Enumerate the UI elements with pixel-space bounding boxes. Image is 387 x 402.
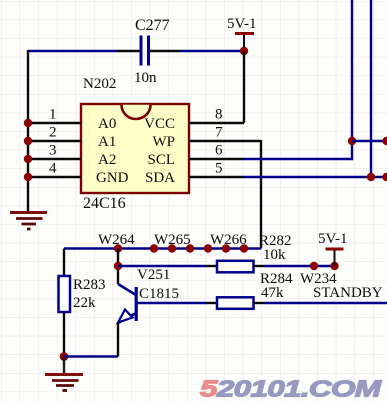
- wire left bus: [27, 50, 29, 212]
- wire cap right to junction: [180, 50, 244, 52]
- node SCL branch: [348, 137, 356, 145]
- power 5V-1 (lower): [326, 248, 344, 267]
- svg-text:STANDBY: STANDBY: [313, 285, 383, 301]
- resistor R282: [217, 261, 254, 273]
- svg-text:24C16: 24C16: [83, 195, 126, 212]
- collector lead: [117, 249, 119, 285]
- svg-text:V251: V251: [137, 267, 170, 283]
- svg-text:5V-1: 5V-1: [227, 16, 256, 32]
- svg-text:VCC: VCC: [144, 116, 175, 132]
- watermark 520101.COM: [200, 376, 382, 402]
- wire vcc vertical: [243, 51, 245, 123]
- svg-text:5: 5: [215, 161, 223, 177]
- svg-text:SCL: SCL: [147, 152, 175, 168]
- wire R283 top: [63, 249, 65, 277]
- wire R283 bottom: [63, 312, 65, 357]
- svg-text:6: 6: [215, 143, 223, 159]
- pin 4 GND: [28, 176, 81, 178]
- svg-text:5V-1: 5V-1: [318, 231, 347, 247]
- pin R284 right lead: [254, 302, 265, 304]
- node pin2: [24, 137, 32, 145]
- svg-text:47k: 47k: [261, 285, 284, 301]
- resistor R284: [217, 297, 254, 309]
- wire SCL right and up: [243, 0, 352, 159]
- svg-text:GND: GND: [96, 170, 129, 186]
- wire SCL branch right: [352, 140, 387, 142]
- emitter diagonal: [119, 313, 136, 323]
- node pin3: [24, 155, 32, 163]
- wire R282 left: [118, 265, 206, 267]
- ground (left, chip pins): [10, 213, 47, 230]
- transistor Q V251 C1815: [118, 249, 138, 357]
- svg-text:A0: A0: [98, 116, 116, 132]
- svg-text:520101.COM: 520101.COM: [200, 376, 382, 402]
- wire emitter net: [64, 355, 118, 357]
- node W234: [310, 262, 318, 270]
- node SDA junction: [367, 173, 375, 181]
- ground (bottom): [45, 357, 83, 391]
- node power attach: [330, 262, 338, 270]
- wire lower net horizontal (W264/5/6): [64, 247, 261, 249]
- svg-text:A2: A2: [98, 152, 116, 168]
- node pin4: [24, 173, 32, 181]
- svg-text:3: 3: [49, 143, 57, 159]
- wire R282 right: [264, 265, 335, 267]
- wire base left: [137, 302, 206, 304]
- node junction at top: [240, 47, 248, 55]
- node R282 branch: [114, 262, 122, 270]
- svg-text:10k: 10k: [263, 247, 286, 263]
- svg-text:8: 8: [215, 107, 223, 123]
- svg-text:10n: 10n: [134, 70, 157, 86]
- svg-text:A1: A1: [98, 134, 116, 150]
- pin 7 WP: [189, 140, 261, 142]
- capacitor C277: [140, 36, 151, 66]
- pin cap right stub: [150, 50, 180, 52]
- svg-text:W264: W264: [98, 232, 135, 248]
- svg-text:1: 1: [49, 107, 57, 123]
- svg-text:SDA: SDA: [145, 170, 175, 186]
- wire SDA right: [243, 176, 387, 178]
- base bar: [135, 287, 138, 321]
- emitter lead: [117, 323, 119, 357]
- pin R284 left lead: [206, 302, 217, 304]
- node W dots: [114, 244, 248, 252]
- wire SDA vertical up: [370, 0, 372, 177]
- svg-text:W266: W266: [210, 232, 247, 248]
- node at right edge SDA: [382, 173, 387, 181]
- pin 1 A0: [28, 122, 81, 124]
- pin 8 VCC: [189, 122, 244, 124]
- svg-text:22k: 22k: [73, 295, 96, 311]
- svg-text:C277: C277: [135, 17, 170, 34]
- svg-text:2: 2: [49, 125, 57, 141]
- pin R282 left lead: [206, 265, 217, 267]
- pin 5 SDA: [189, 176, 243, 178]
- node pin1: [24, 119, 32, 127]
- pin R282 right lead: [254, 265, 265, 267]
- wire base right to edge: [264, 302, 387, 304]
- svg-text:4: 4: [49, 161, 57, 177]
- pin 2 A1: [28, 140, 81, 142]
- power 5V-1 (top): [235, 32, 254, 51]
- pin 3 A2: [28, 158, 81, 160]
- wire WP to down: [260, 140, 262, 249]
- wire top horizontal net: [28, 50, 117, 52]
- svg-text:C1815: C1815: [139, 286, 179, 302]
- svg-text:R283: R283: [73, 277, 106, 293]
- svg-text:7: 7: [215, 125, 223, 141]
- node at right edge top: [382, 137, 387, 145]
- emitter arrow: [118, 310, 133, 323]
- chip U N202 24C16 body: [81, 104, 189, 193]
- svg-text:WP: WP: [153, 134, 176, 150]
- svg-text:W265: W265: [154, 232, 191, 248]
- pin cap left stub: [117, 50, 140, 52]
- svg-text:N202: N202: [83, 76, 116, 92]
- collector diagonal: [118, 284, 136, 295]
- resistor R283: [59, 276, 71, 312]
- pin 6 SCL: [189, 158, 243, 160]
- node emitter net: [60, 352, 69, 361]
